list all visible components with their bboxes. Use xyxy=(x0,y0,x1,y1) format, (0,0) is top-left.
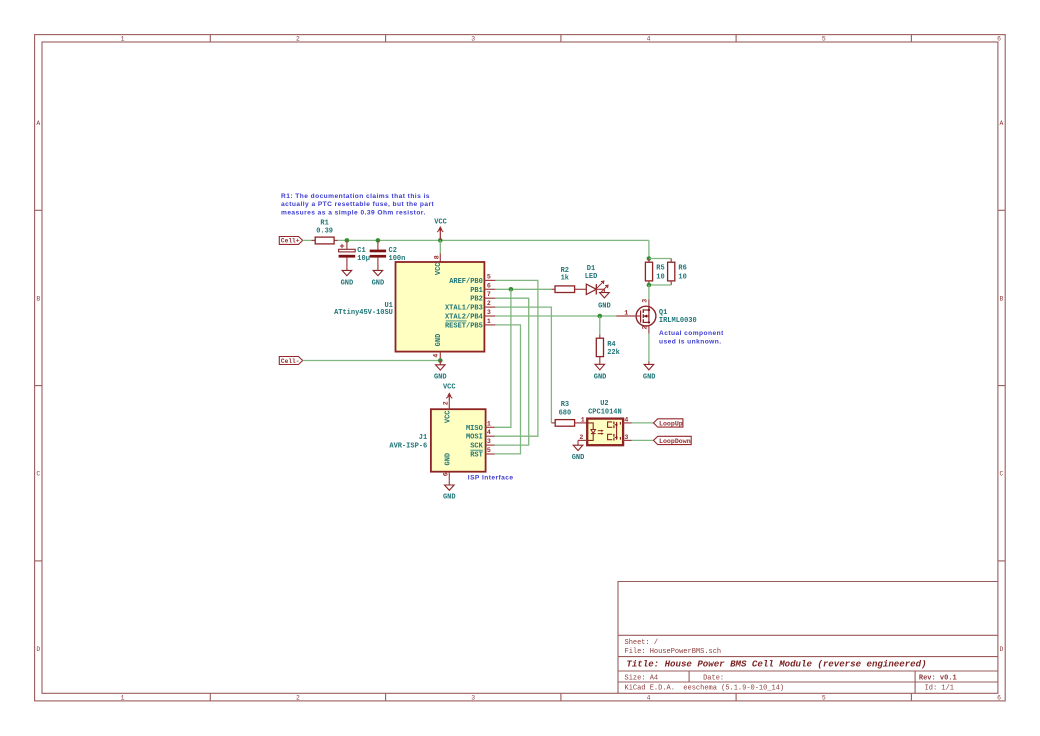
wire Cell- to U1 GND xyxy=(303,360,441,362)
svg-text:B: B xyxy=(999,295,1003,302)
svg-text:SCK: SCK xyxy=(470,443,483,451)
svg-text:3: 3 xyxy=(471,694,475,701)
junction at C2 xyxy=(376,238,381,243)
ground D1 xyxy=(598,289,611,310)
resistor R3 xyxy=(551,401,587,426)
svg-text:used is unknown.: used is unknown. xyxy=(659,338,722,345)
ground J1 pin6 xyxy=(443,481,456,502)
svg-text:7: 7 xyxy=(487,291,491,298)
svg-text:680: 680 xyxy=(559,410,572,418)
wire VCC junction to U1 pin8 xyxy=(439,240,441,253)
capacitor C2 xyxy=(370,240,406,270)
ground U1 pin4 xyxy=(434,361,447,382)
svg-text:LoopDown: LoopDown xyxy=(659,438,691,445)
optocoupler U2 xyxy=(578,400,632,445)
wire AREF/PB0 to J1 MOSI xyxy=(495,280,538,436)
svg-text:Date:: Date: xyxy=(703,674,724,682)
wire PB1 to J1 MISO xyxy=(495,289,511,427)
svg-text:1: 1 xyxy=(581,416,585,423)
svg-text:PB2: PB2 xyxy=(470,296,483,304)
svg-text:3: 3 xyxy=(487,309,491,316)
resistor R6 xyxy=(668,259,687,286)
wire U2 pin4 to LoopUp xyxy=(632,422,654,424)
svg-text:Rev: v0.1: Rev: v0.1 xyxy=(919,674,957,682)
svg-text:J1: J1 xyxy=(419,434,427,442)
svg-text:C: C xyxy=(999,471,1003,478)
svg-text:LED: LED xyxy=(585,273,598,281)
ground R4 xyxy=(594,364,607,381)
svg-text:1: 1 xyxy=(121,694,125,701)
svg-text:0.39: 0.39 xyxy=(316,227,333,235)
svg-text:Id: 1/1: Id: 1/1 xyxy=(925,685,954,693)
svg-text:5: 5 xyxy=(487,273,491,280)
svg-text:1: 1 xyxy=(624,309,628,316)
wire U2 pin3 to LoopDown xyxy=(632,439,654,441)
svg-text:1: 1 xyxy=(487,318,491,325)
svg-text:10: 10 xyxy=(656,273,664,281)
svg-text:6: 6 xyxy=(443,472,450,476)
svg-text:CPC1014N: CPC1014N xyxy=(588,409,622,417)
wire R6 bottom xyxy=(649,284,671,286)
junction XTAL2/R4 xyxy=(598,314,603,319)
svg-text:6: 6 xyxy=(997,694,1001,701)
svg-text:Cell+: Cell+ xyxy=(281,238,300,245)
svg-text:22k: 22k xyxy=(607,349,620,357)
wire rail down to R5/R6 xyxy=(648,240,650,258)
junction at VCC/U1 xyxy=(438,238,443,243)
resistor R5 xyxy=(645,259,664,286)
svg-text:KiCad E.D.A. eeschema (5.1.9-: KiCad E.D.A. eeschema (5.1.9-0-10_14) xyxy=(625,685,785,693)
svg-text:3: 3 xyxy=(471,36,475,43)
svg-text:Size: A4: Size: A4 xyxy=(625,674,659,682)
svg-text:XTAL2/PB4: XTAL2/PB4 xyxy=(445,314,483,322)
svg-text:GND: GND xyxy=(435,334,443,347)
resistor R2 xyxy=(552,267,579,293)
resistor R4 xyxy=(596,316,620,364)
svg-text:10: 10 xyxy=(678,273,686,281)
svg-text:VCC: VCC xyxy=(435,262,443,275)
junction R5 top xyxy=(647,256,652,261)
wire Cell+ to R1 xyxy=(303,239,312,241)
svg-text:RESET/PB5: RESET/PB5 xyxy=(445,322,483,330)
svg-text:R1: The documentation claims t: R1: The documentation claims that this i… xyxy=(281,193,430,200)
svg-text:A: A xyxy=(36,120,40,127)
svg-text:4: 4 xyxy=(647,36,651,43)
hier label Cell- xyxy=(279,357,302,365)
svg-text:measures as a simple 0.39 Ohm: measures as a simple 0.39 Ohm resistor. xyxy=(281,210,426,217)
ground C1 xyxy=(341,270,354,287)
transistor Q1 xyxy=(616,299,696,334)
resistor R1 xyxy=(311,220,338,244)
svg-text:Actual component: Actual component xyxy=(659,330,724,337)
svg-text:2: 2 xyxy=(296,36,300,43)
svg-text:GND: GND xyxy=(643,374,656,382)
wire main VCC rail xyxy=(338,239,649,241)
svg-text:2: 2 xyxy=(296,694,300,701)
svg-text:3: 3 xyxy=(641,299,648,303)
connector J1 AVR-ISP-6 xyxy=(389,400,494,480)
ground U2 pin2 xyxy=(572,440,585,461)
title block xyxy=(618,582,998,694)
svg-text:RST: RST xyxy=(470,452,483,460)
wire XTAL2/PB4 to Q1 gate xyxy=(495,315,616,317)
svg-text:1: 1 xyxy=(121,36,125,43)
junction U1 pin4 xyxy=(438,358,443,363)
svg-text:ISP Interface: ISP Interface xyxy=(468,475,514,482)
svg-text:1: 1 xyxy=(487,420,491,427)
svg-text:5: 5 xyxy=(822,36,826,43)
note Q1 xyxy=(659,330,724,345)
svg-text:2: 2 xyxy=(443,401,450,405)
wire Q1 source to GND xyxy=(648,334,650,362)
svg-text:10µ: 10µ xyxy=(357,255,370,263)
svg-text:R6: R6 xyxy=(678,265,686,273)
svg-text:R5: R5 xyxy=(656,265,664,273)
svg-text:D: D xyxy=(36,646,40,653)
svg-text:2: 2 xyxy=(641,325,648,329)
svg-text:3: 3 xyxy=(487,438,491,445)
hier label LoopUp xyxy=(654,419,683,428)
ground Q1 xyxy=(643,362,656,382)
svg-text:MOSI: MOSI xyxy=(466,434,483,442)
svg-text:Q1: Q1 xyxy=(659,309,667,317)
capacitor C1 xyxy=(339,240,370,270)
svg-text:AVR-ISP-6: AVR-ISP-6 xyxy=(389,442,427,450)
svg-text:GND: GND xyxy=(434,374,447,382)
svg-text:GND: GND xyxy=(594,374,607,382)
svg-text:R3: R3 xyxy=(561,401,569,409)
svg-text:Cell-: Cell- xyxy=(281,358,300,365)
svg-text:A: A xyxy=(999,120,1003,127)
LED D1 xyxy=(578,265,608,294)
svg-text:XTAL1/PB3: XTAL1/PB3 xyxy=(445,305,483,313)
hier label LoopDown xyxy=(654,436,692,445)
svg-text:R4: R4 xyxy=(607,341,615,349)
svg-text:GND: GND xyxy=(443,494,456,502)
wire PB1 to R2 xyxy=(495,288,551,290)
power VCC main xyxy=(434,218,447,239)
svg-text:actually a PTC resettable fuse: actually a PTC resettable fuse, but the … xyxy=(281,201,435,208)
junction PB1 xyxy=(509,287,514,292)
svg-text:File: HousePowerBMS.sch: File: HousePowerBMS.sch xyxy=(625,648,722,656)
junction R5 bottom xyxy=(647,283,652,288)
svg-text:VCC: VCC xyxy=(434,218,447,226)
svg-text:5: 5 xyxy=(487,447,491,454)
svg-text:GND: GND xyxy=(572,454,585,462)
svg-text:ATtiny45V-10SU: ATtiny45V-10SU xyxy=(334,309,393,317)
svg-text:4: 4 xyxy=(647,694,651,701)
wire XTAL1/PB3 to R3 xyxy=(495,307,551,423)
svg-text:MISO: MISO xyxy=(466,425,483,433)
svg-text:GND: GND xyxy=(598,303,611,311)
junction at C1 xyxy=(345,238,350,243)
svg-text:4: 4 xyxy=(433,354,440,358)
svg-text:6: 6 xyxy=(997,36,1001,43)
svg-text:B: B xyxy=(36,295,40,302)
svg-text:6: 6 xyxy=(487,282,491,289)
svg-text:GND: GND xyxy=(372,279,385,287)
power VCC J1 xyxy=(443,384,456,401)
svg-text:Title: House Power BMS Cell Mo: Title: House Power BMS Cell Module (reve… xyxy=(626,659,926,670)
wire RESET/PB5 to J1 RST xyxy=(495,325,521,454)
svg-text:5: 5 xyxy=(822,694,826,701)
svg-text:IRLML0030: IRLML0030 xyxy=(659,317,697,325)
svg-text:LoopUp: LoopUp xyxy=(659,421,683,428)
svg-text:C: C xyxy=(36,471,40,478)
svg-text:AREF/PB0: AREF/PB0 xyxy=(449,278,483,286)
svg-text:GND: GND xyxy=(341,279,354,287)
svg-text:PB1: PB1 xyxy=(470,287,483,295)
hier label Cell+ xyxy=(279,237,302,245)
svg-text:Sheet: /: Sheet: / xyxy=(625,639,659,647)
IC U1 ATtiny45V-10SU xyxy=(334,254,495,361)
svg-text:GND: GND xyxy=(445,453,453,466)
svg-text:VCC: VCC xyxy=(443,384,456,392)
wire PB2 to J1 SCK xyxy=(495,298,529,445)
svg-text:D: D xyxy=(999,646,1003,653)
svg-text:U2: U2 xyxy=(600,400,608,408)
svg-text:8: 8 xyxy=(434,255,441,259)
svg-text:1k: 1k xyxy=(561,275,569,283)
note R1 explanation xyxy=(281,193,435,217)
svg-text:2: 2 xyxy=(487,300,491,307)
svg-text:4: 4 xyxy=(487,429,491,436)
wire junction to Q1 drain xyxy=(648,285,650,299)
svg-text:VCC: VCC xyxy=(445,410,453,423)
wire to R6 top xyxy=(649,258,671,260)
ground C2 xyxy=(372,270,385,287)
